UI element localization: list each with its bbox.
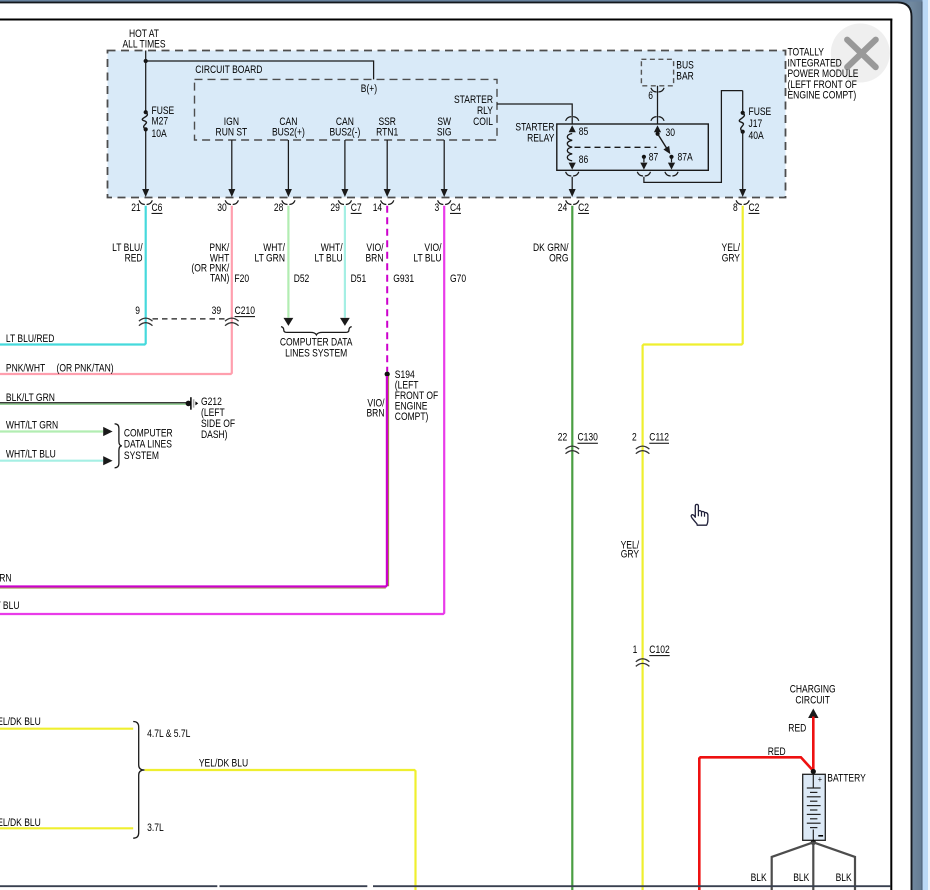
svg-text:RUN ST: RUN ST [216, 127, 248, 139]
svg-text:C6: C6 [152, 202, 163, 214]
svg-text:RED: RED [768, 746, 786, 758]
mouse cursor [691, 504, 708, 525]
svg-text:BUS2(-): BUS2(-) [330, 127, 361, 139]
wire SSR RTN1 [386, 140, 388, 190]
svg-text:30: 30 [217, 202, 227, 214]
wire VIO/BRN dashed [386, 206, 388, 372]
connector 21 C6 [139, 200, 145, 204]
wire YEL/DK BLU main [145, 770, 416, 890]
wire WHT/LT GRN horizontal [0, 430, 103, 432]
node battery negative [811, 840, 816, 845]
splice S194 [385, 372, 390, 377]
svg-text:C102: C102 [649, 644, 669, 656]
relay coil pin 86 [569, 163, 576, 170]
page top border [0, 19, 892, 21]
svg-text:G931: G931 [393, 273, 414, 285]
svg-text:29: 29 [330, 202, 340, 214]
svg-text:C130: C130 [578, 432, 598, 444]
svg-text:RELAY: RELAY [527, 133, 555, 145]
svg-text:3.7L: 3.7L [147, 822, 164, 834]
wire RED horizontal [699, 757, 813, 890]
page right border [890, 19, 892, 890]
svg-text:SYSTEM: SYSTEM [124, 450, 159, 462]
svg-text:WHT/LT GRN: WHT/LT GRN [6, 420, 58, 432]
svg-text:YEL/DK BLU: YEL/DK BLU [0, 817, 41, 829]
node battery positive [811, 769, 816, 774]
svg-text:BLK: BLK [793, 872, 810, 884]
close button [831, 24, 890, 83]
wire relay 86 to pin 24 [571, 177, 573, 190]
relay link dashed [575, 146, 657, 148]
svg-text:4.7L & 5.7L: 4.7L & 5.7L [147, 728, 190, 740]
svg-text:B(+): B(+) [361, 83, 377, 95]
wire BLK/LT GRN [0, 402, 187, 404]
brace computer data lines mid [281, 327, 352, 335]
svg-text:COMPT): COMPT) [395, 411, 429, 423]
fuse M27 [144, 110, 148, 114]
svg-text:1: 1 [633, 644, 638, 656]
svg-text:RTN1: RTN1 [376, 127, 398, 139]
svg-text:COIL: COIL [473, 116, 493, 128]
svg-text:14: 14 [373, 202, 383, 214]
wire YEL/DK BLU lower [0, 827, 133, 829]
relay pin 87 [642, 155, 646, 159]
svg-text:C2: C2 [749, 202, 760, 214]
connector 3 C4 [438, 200, 444, 204]
svg-text:10A: 10A [152, 128, 168, 140]
svg-text:GRY: GRY [722, 252, 741, 264]
svg-text:86: 86 [579, 154, 589, 166]
svg-text:LT BLU: LT BLU [413, 252, 441, 264]
wire YEL/DK BLU upper [0, 728, 133, 730]
battery [803, 774, 826, 840]
svg-text:RED: RED [125, 252, 143, 264]
svg-text:BLK: BLK [836, 872, 853, 884]
top window strip [0, 0, 923, 2]
svg-text:CIRCUIT BOARD: CIRCUIT BOARD [195, 64, 262, 76]
svg-text:M27: M27 [152, 116, 169, 128]
connector 28 [282, 200, 288, 204]
wire IGN RUN ST [231, 140, 233, 190]
wire hot feed [145, 51, 147, 113]
svg-text:J17: J17 [749, 118, 763, 130]
relay coil pin 85 [569, 125, 576, 132]
wire starter rly coil to relay 85 [497, 104, 572, 124]
svg-text:GRY: GRY [621, 549, 640, 561]
wire WHT/LT GRN to data lines [287, 206, 289, 318]
svg-text:40A: 40A [749, 130, 765, 142]
svg-text:21: 21 [131, 202, 141, 214]
svg-text:BLK: BLK [751, 872, 768, 884]
svg-text:LT GRN: LT GRN [255, 252, 286, 264]
wire VIO/BRN solid [0, 376, 387, 587]
svg-text:C112: C112 [649, 432, 669, 444]
charging circuit arrow [808, 709, 818, 719]
svg-text:C210: C210 [235, 305, 255, 317]
svg-text:FUSE: FUSE [749, 106, 772, 118]
wire SW SIG [443, 140, 445, 190]
svg-text:30: 30 [666, 127, 676, 139]
wire BLK left [772, 842, 814, 890]
svg-text:+: + [818, 775, 822, 785]
connector C130 [566, 446, 580, 449]
connector 30 [225, 200, 231, 204]
wire CAN BUS2- [344, 140, 346, 190]
svg-text:YEL/DK BLU: YEL/DK BLU [0, 716, 41, 728]
ground G212 [186, 401, 192, 407]
wire fuse M27 to pin 21 [145, 129, 147, 190]
svg-text:6: 6 [648, 90, 653, 102]
svg-text:(OR PNK/TAN): (OR PNK/TAN) [57, 362, 114, 374]
svg-text:87A: 87A [678, 152, 694, 164]
svg-text:LINES SYSTEM: LINES SYSTEM [285, 347, 347, 359]
svg-text:D52: D52 [294, 273, 310, 285]
svg-text:STARTER: STARTER [454, 94, 493, 106]
wire PNK/WHT [0, 206, 232, 374]
svg-text:22: 22 [558, 432, 568, 444]
svg-text:ALL TIMES: ALL TIMES [122, 38, 165, 50]
svg-text:BRN: BRN [366, 252, 384, 264]
svg-text:TAN): TAN) [210, 273, 229, 285]
connector C210 [153, 318, 226, 320]
wire WHT/LT BLU horizontal [0, 460, 103, 462]
wire RED to charging circuit [812, 717, 815, 772]
wire B+ feed [146, 61, 374, 79]
wire YEL/GRY [643, 206, 743, 890]
svg-text:8: 8 [733, 202, 738, 214]
svg-text:BATTERY: BATTERY [827, 772, 866, 784]
svg-text:9: 9 [135, 305, 140, 317]
svg-text:SIG: SIG [437, 127, 452, 139]
wire relay 87 to fuse J17 [644, 91, 743, 183]
svg-text:VIO/LT BLU: VIO/LT BLU [0, 600, 20, 612]
svg-text:COMPUTER: COMPUTER [124, 427, 173, 439]
relay pin 87A [669, 155, 673, 159]
connector C112 [636, 446, 650, 449]
svg-text:RED: RED [788, 722, 806, 734]
connector 8 C2 [736, 200, 742, 204]
wire fuse J17 to pin 8 [742, 132, 744, 190]
svg-text:85: 85 [579, 126, 589, 138]
wire BLK right [813, 842, 855, 890]
connector C102 [636, 659, 650, 662]
wire bus bar to relay 30 [657, 86, 659, 124]
wire WHT/LT BLU to data lines [344, 206, 346, 318]
wire LT BLU/RED [0, 206, 146, 345]
svg-text:39: 39 [212, 305, 222, 317]
wire DK GRN/ORG [571, 206, 573, 890]
svg-text:BRN: BRN [367, 408, 385, 420]
svg-text:BLK/LT GRN: BLK/LT GRN [6, 392, 55, 404]
svg-text:PNK/WHT: PNK/WHT [6, 362, 46, 374]
TIPM module box [108, 51, 786, 198]
svg-text:2: 2 [632, 432, 637, 444]
node junction [144, 59, 148, 63]
svg-text:DATA LINES: DATA LINES [124, 439, 172, 451]
svg-text:F20: F20 [234, 273, 249, 285]
svg-text:WHT/LT BLU: WHT/LT BLU [6, 449, 56, 461]
svg-text:ORG: ORG [549, 252, 568, 264]
starter relay box [557, 124, 709, 170]
svg-text:G70: G70 [450, 273, 466, 285]
svg-text:28: 28 [274, 202, 284, 214]
svg-text:BUS2(+): BUS2(+) [272, 127, 305, 139]
wire BLK center [812, 842, 814, 890]
relay pin 30 switch [654, 125, 661, 132]
page bottom line [0, 885, 217, 887]
svg-text:C7: C7 [351, 202, 362, 214]
connector 29 C7 [338, 200, 344, 204]
svg-text:87: 87 [649, 152, 659, 164]
svg-text:24: 24 [558, 202, 568, 214]
wire VIO/LT BLU [0, 206, 444, 614]
brace engine variants [133, 722, 144, 839]
connector 24 C2 [566, 200, 572, 204]
brace computer data lines left [115, 424, 122, 468]
svg-text:CIRCUIT: CIRCUIT [795, 694, 830, 706]
svg-text:LT BLU/RED: LT BLU/RED [6, 333, 55, 345]
svg-text:YEL/DK BLU: YEL/DK BLU [199, 757, 248, 769]
svg-text:3: 3 [435, 202, 440, 214]
svg-text:DASH): DASH) [201, 429, 228, 441]
svg-text:BAR: BAR [676, 70, 694, 82]
circuit board box [195, 79, 498, 140]
svg-text:ENGINE COMPT): ENGINE COMPT) [788, 90, 857, 102]
bus bar box [641, 59, 673, 86]
svg-text:VIO/BRN: VIO/BRN [0, 573, 12, 585]
svg-text:LT BLU: LT BLU [315, 252, 343, 264]
svg-text:C2: C2 [578, 202, 589, 214]
fuse J17 [742, 91, 744, 113]
connector 14 [381, 200, 387, 204]
svg-text:C4: C4 [450, 202, 461, 214]
svg-text:D51: D51 [351, 273, 367, 285]
wire CAN BUS2+ [287, 140, 289, 190]
